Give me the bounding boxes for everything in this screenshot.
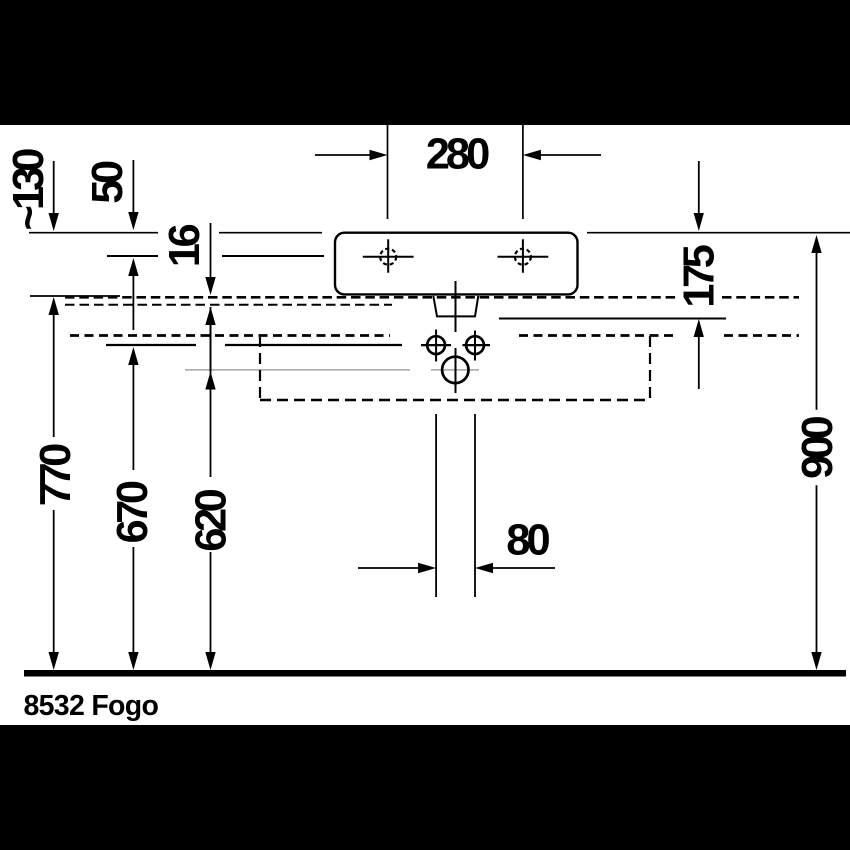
svg-text:16: 16 — [161, 225, 209, 268]
svg-text:80: 80 — [506, 517, 549, 565]
svg-text:50: 50 — [84, 161, 132, 204]
svg-text:280: 280 — [426, 131, 489, 179]
svg-text:175: 175 — [676, 245, 724, 307]
svg-text:8532 Fogo: 8532 Fogo — [24, 690, 159, 722]
svg-text:900: 900 — [794, 417, 842, 479]
svg-text:770: 770 — [32, 444, 80, 506]
svg-text:~130: ~130 — [5, 149, 53, 231]
svg-text:620: 620 — [188, 489, 236, 551]
svg-text:670: 670 — [109, 481, 157, 543]
